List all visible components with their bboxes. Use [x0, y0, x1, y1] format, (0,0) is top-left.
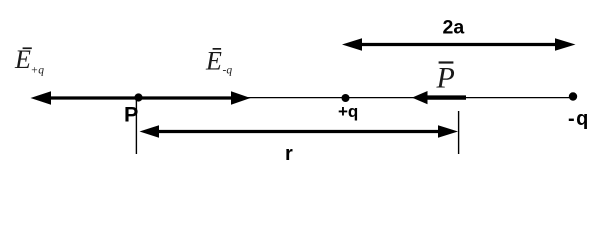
svg-text:-q: -q — [223, 65, 233, 77]
dipole moment vector P arrow (points left toward +q) — [412, 91, 466, 104]
node +q: dot on axis — [342, 94, 350, 102]
svg-text:-q: -q — [568, 108, 590, 130]
svg-text:r: r — [285, 143, 293, 165]
tick: vertical extension line at dipole centre (right bound of r) — [458, 111, 460, 154]
label P vector (dipole moment) — [436, 61, 455, 94]
node P: dot on axis — [134, 93, 142, 101]
wire: main horizontal axis line from P to -q — [136, 97, 573, 99]
svg-text:P: P — [436, 62, 455, 95]
svg-text:P: P — [124, 102, 138, 126]
label E_-q (vector E due to -q) — [205, 47, 232, 77]
svg-text:E: E — [205, 47, 222, 76]
svg-text:2a: 2a — [443, 17, 465, 39]
node -q: dot on axis — [569, 92, 577, 100]
svg-text:+q: +q — [31, 65, 45, 77]
label E_+q (vector E due to +q) — [14, 45, 44, 77]
dimension arrow r (double-headed, from P to dipole centre) — [140, 125, 459, 138]
vector E_-q arrow (points right from P) — [139, 91, 251, 104]
dimension arrow 2a (double-headed, between +q and -q) — [342, 38, 576, 51]
svg-text:E: E — [14, 45, 31, 74]
svg-text:+q: +q — [338, 102, 358, 121]
tick: vertical extension line at P (left bound of r) — [135, 97, 137, 154]
vector E_+q arrow (points left from P) — [31, 91, 139, 104]
